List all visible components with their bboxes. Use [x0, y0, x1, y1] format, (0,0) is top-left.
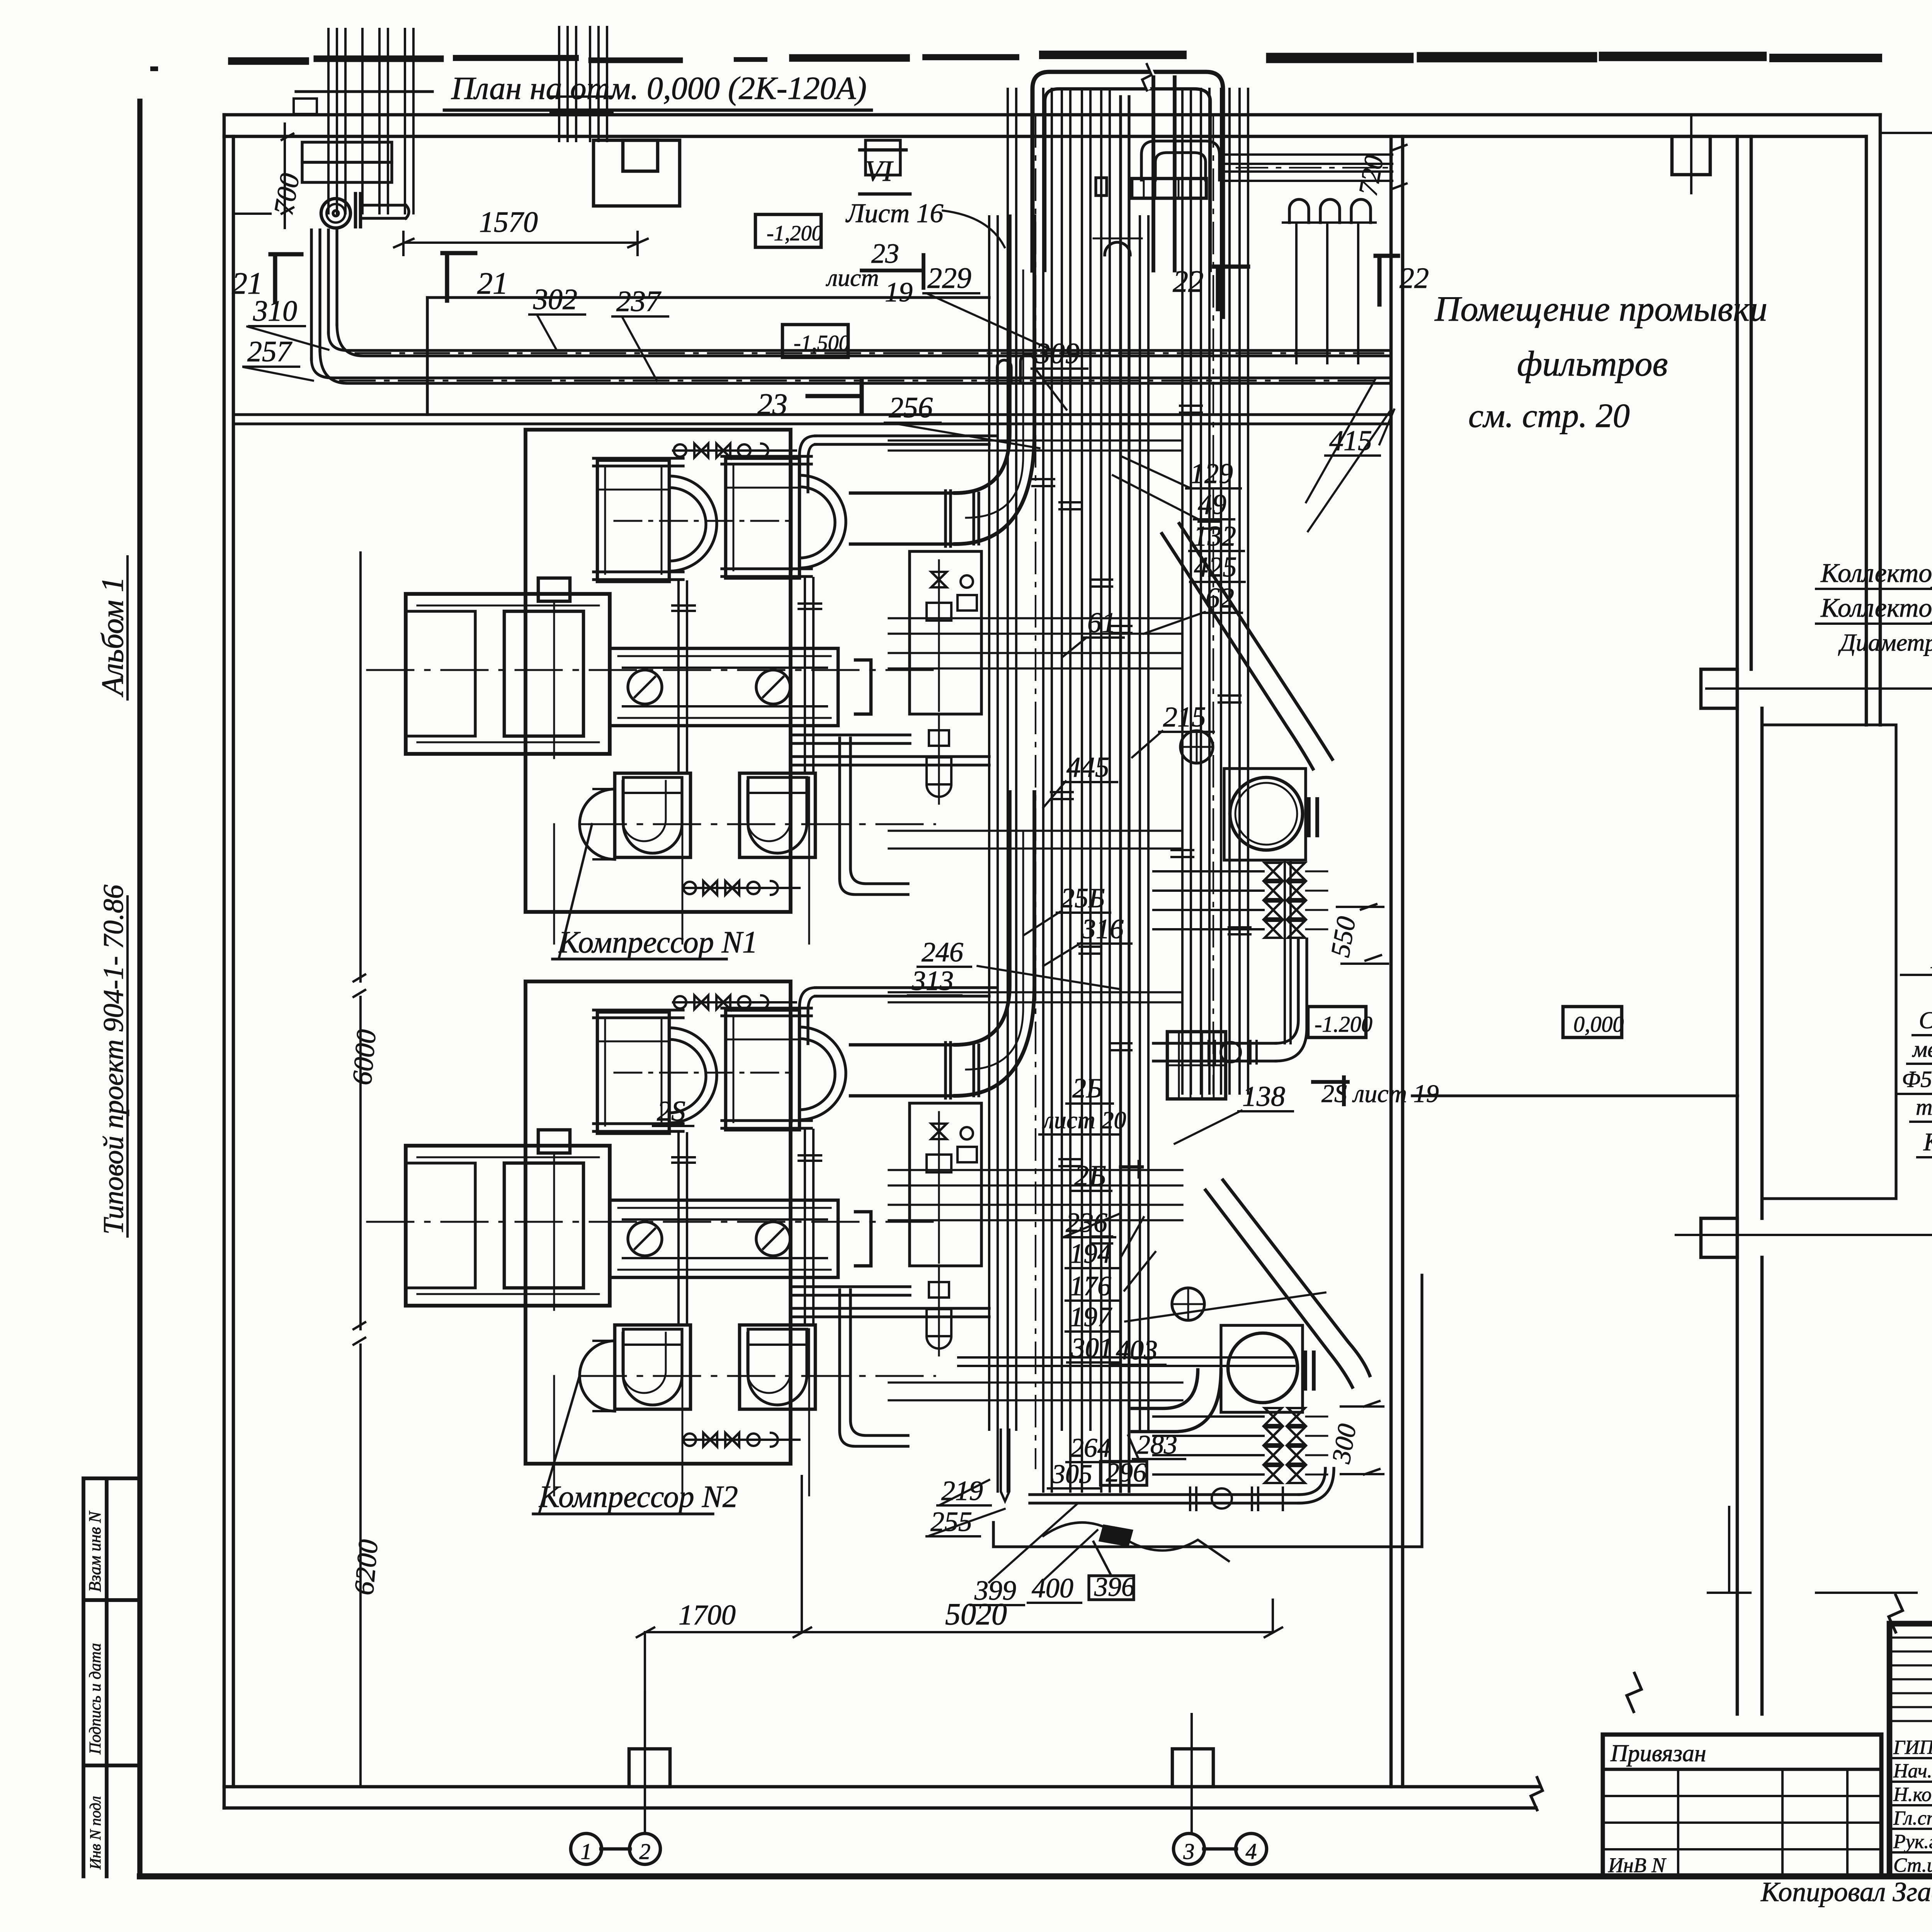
long pipe A to filter room [328, 325, 1391, 356]
svg-text:3: 3 [1183, 1839, 1195, 1864]
svg-text:256: 256 [889, 391, 933, 424]
building right wall upper [1866, 115, 1880, 725]
svg-text:Подпись и дата: Подпись и дата [87, 1643, 104, 1755]
svg-text:229: 229 [927, 262, 971, 294]
corridor flange ticks [1032, 479, 1054, 486]
instrument stand N2 [910, 1103, 981, 1355]
dim ext line near title block [1708, 1507, 1750, 1593]
dim 1570 [394, 232, 648, 255]
svg-text:313: 313 [912, 965, 954, 996]
svg-text:302: 302 [533, 283, 577, 316]
svg-text:2S: 2S [657, 1095, 685, 1127]
svg-text:425: 425 [1194, 551, 1237, 583]
right annex outline [1762, 725, 1896, 1199]
compressor N2 [367, 981, 935, 1495]
instrument stand N1 [910, 551, 981, 804]
section mark 21 mid [442, 253, 475, 301]
svg-text:1: 1 [581, 1839, 592, 1864]
bottom horizontal pipe runs [958, 1357, 1294, 1366]
svg-text:197: 197 [1070, 1301, 1112, 1332]
horizontal branches corridor N1 [889, 439, 1182, 441]
wall pier filter room top [1672, 136, 1710, 175]
intake elbow N1 [955, 216, 1034, 544]
svg-text:Н.контр: Н.контр [1893, 1784, 1932, 1806]
svg-text:296: 296 [1106, 1458, 1146, 1488]
svg-text:22: 22 [1400, 262, 1429, 294]
svg-text:Коллектор воды прямой: Коллектор воды прямой [1820, 593, 1932, 623]
svg-text:см. стр. 20: см. стр. 20 [1468, 397, 1630, 435]
intake pipe N1 [850, 493, 955, 544]
svg-text:точных баков продувок,Ф50: точных баков продувок,Ф50 [1916, 1094, 1932, 1120]
svg-text:19: 19 [885, 277, 913, 308]
svg-text:415: 415 [1329, 425, 1372, 457]
intake run N2 upper [815, 988, 997, 996]
svg-text:Коллектор дренажа, Ф40: Коллектор дренажа, Ф40 [1923, 1128, 1932, 1156]
sheet frame left border [137, 101, 142, 1876]
inclined pipe N2 [1206, 1180, 1370, 1387]
lower assembly base [993, 1275, 1422, 1547]
svg-text:Копировал Згавордей: Копировал Згавордей [1760, 1876, 1932, 1907]
hatched drain symbol [1099, 1524, 1133, 1547]
separator tank N1 [1224, 769, 1306, 860]
svg-text:Взам инв N: Взам инв N [85, 1510, 104, 1592]
discharge pipes N2 [791, 1287, 910, 1295]
dim 1700 / 5020 bottom [637, 1476, 1282, 1832]
svg-text:62: 62 [1206, 582, 1234, 614]
sheet frame bottom border [140, 1873, 1932, 1879]
svg-text:Ф50.Сброс воздуха от промежу-: Ф50.Сброс воздуха от промежу- [1902, 1066, 1932, 1092]
svg-text:445: 445 [1066, 752, 1109, 783]
svg-text:6200: 6200 [348, 1538, 384, 1596]
svg-text:21: 21 [477, 267, 508, 301]
signature table thin rows [1889, 1636, 1932, 1638]
section mark 21 left [270, 254, 301, 301]
svg-text:61: 61 [1087, 607, 1116, 639]
grid axis Б [1676, 1234, 1932, 1236]
svg-text:Рук.гр: Рук.гр [1893, 1831, 1932, 1853]
svg-text:301: 301 [1071, 1332, 1113, 1363]
svg-text:-1,200: -1,200 [767, 221, 823, 245]
filter room bottom line [1412, 1094, 1738, 1097]
plan top wall [224, 115, 1880, 136]
svg-text:VI: VI [865, 155, 894, 187]
upper-mid piping square [866, 140, 900, 175]
svg-text:Помещение промывки: Помещение промывки [1434, 289, 1767, 328]
long pipe B [311, 230, 320, 359]
riser pair to pipe A [328, 230, 337, 333]
svg-text:План на отм. 0,000 (2К-120А): План на отм. 0,000 (2К-120А) [451, 70, 867, 106]
valve manifold N1 [1265, 863, 1282, 880]
discharge pipes N1 [791, 735, 910, 743]
привязан table [1603, 1735, 1881, 1876]
svg-text:межуточных баков продувок,: межуточных баков продувок, [1912, 1036, 1932, 1062]
dim line 6000/6200 [359, 553, 362, 1785]
svg-text:2S лист 19: 2S лист 19 [1321, 1080, 1439, 1108]
svg-text:25Б: 25Б [1061, 883, 1105, 913]
elevation box -1.500 [782, 325, 848, 357]
left margin stamp boxes [83, 1478, 140, 1876]
svg-text:2Б: 2Б [1074, 1160, 1106, 1192]
svg-text:ГИП: ГИП [1893, 1736, 1932, 1759]
svg-text:283: 283 [1137, 1430, 1177, 1460]
elevation box -1.200 lower [1308, 1007, 1366, 1037]
svg-text:1700: 1700 [679, 1599, 736, 1631]
title block outer [1889, 1624, 1932, 1876]
svg-text:Типовой проект 904-1- 70.86: Типовой проект 904-1- 70.86 [98, 884, 129, 1235]
floor grate [1167, 1032, 1226, 1099]
plan bottom wall [224, 1787, 1539, 1808]
grid axis В [1706, 687, 1932, 690]
drain tip pipes [1001, 1430, 1009, 1501]
svg-text:Ст.инж: Ст.инж [1893, 1854, 1932, 1876]
svg-text:лист: лист [826, 264, 879, 291]
svg-text:Инв N подл: Инв N подл [87, 1796, 104, 1870]
svg-text:138: 138 [1242, 1081, 1285, 1112]
signature rows [1889, 1757, 1932, 1759]
svg-text:Диаметры: 159х3,0(для 9К-12: Диаметры: 159х3,0(для 9К-120А) [1838, 629, 1932, 656]
flange plate row [1132, 179, 1206, 198]
cap stubs near 256 [997, 354, 1034, 383]
manifold riser N1 [1285, 862, 1291, 1043]
grid axis 3 4 [1204, 1847, 1236, 1851]
svg-text:2: 2 [639, 1839, 651, 1864]
svg-text:Лист 16: Лист 16 [845, 199, 944, 228]
pipe run below manifold N1 [1153, 1043, 1276, 1061]
top edge tape marks [232, 57, 305, 65]
valve with handwheel [321, 199, 350, 228]
svg-text:1570: 1570 [479, 206, 538, 238]
separator tank N2 [1221, 1325, 1303, 1412]
svg-text:264: 264 [1070, 1433, 1111, 1463]
bottom wall columns [629, 1749, 670, 1787]
svg-text:Пусковые трубопро-: Пусковые трубопро- [1930, 946, 1932, 974]
upper room inner line [427, 296, 989, 299]
intake pipe N2 [850, 1045, 955, 1096]
building right wall lower [1737, 136, 1762, 1257]
pipe risers top-left [327, 29, 330, 213]
intake run N1 upper [815, 436, 997, 444]
corridor thick pipe pair [1121, 97, 1129, 1492]
svg-text:Компрессор N2: Компрессор N2 [539, 1480, 738, 1514]
svg-text:246: 246 [922, 937, 963, 968]
section mark 23 bottom [808, 381, 862, 413]
pipes to filter room pier [1223, 155, 1392, 181]
nested U pipe loops [1141, 141, 1219, 180]
riser pipes mid top [558, 27, 560, 141]
svg-text:132: 132 [1193, 520, 1236, 552]
svg-text:Привязан: Привязан [1610, 1740, 1706, 1767]
svg-text:237: 237 [616, 285, 662, 318]
svg-text:22: 22 [1173, 265, 1204, 299]
horizontal branches corridor N2 [889, 991, 1182, 993]
svg-text:Компрессор N1: Компрессор N1 [558, 925, 758, 959]
break on loop top [1145, 66, 1153, 88]
pipe undercross [1105, 242, 1130, 255]
svg-text:305: 305 [1051, 1459, 1092, 1489]
elevation box -1.200 top [755, 214, 821, 247]
svg-text:215: 215 [1163, 701, 1206, 733]
svg-text:4: 4 [1246, 1839, 1257, 1864]
plan left wall [224, 115, 233, 1808]
svg-text:Альбом 1: Альбом 1 [96, 577, 130, 697]
svg-text:403: 403 [1116, 1335, 1158, 1366]
svg-text:396: 396 [1094, 1572, 1135, 1602]
svg-text:176: 176 [1070, 1270, 1111, 1301]
corridor top risers [1153, 77, 1175, 270]
svg-text:-1.200: -1.200 [1315, 1012, 1372, 1037]
upper room bottom wall [233, 415, 1391, 424]
section mark 22 right [1376, 256, 1398, 304]
svg-text:257: 257 [247, 335, 293, 368]
filter room left wall [1391, 136, 1403, 1787]
svg-text:23: 23 [757, 387, 787, 421]
svg-text:Слив конденсата от про-: Слив конденсата от про- [1919, 1007, 1932, 1034]
svg-text:0,000: 0,000 [1573, 1012, 1624, 1037]
svg-text:49: 49 [1198, 489, 1226, 520]
svg-text:2Б: 2Б [1072, 1073, 1102, 1104]
inclined pipe N1 [1162, 524, 1332, 769]
pipe corridor vertical bundle [989, 89, 1110, 1492]
svg-text:400: 400 [1032, 1573, 1073, 1604]
section mark 22 left [1214, 267, 1248, 309]
corridor east bundle [1182, 89, 1248, 1094]
svg-text:316: 316 [1082, 913, 1124, 944]
grid axis Г [1880, 132, 1932, 134]
svg-text:194: 194 [1070, 1238, 1111, 1269]
flange ladder top-left [302, 142, 392, 162]
svg-text:Нач.отд: Нач.отд [1893, 1760, 1932, 1782]
compressor N1 [367, 430, 935, 944]
svg-text:Гл.спец: Гл.спец [1893, 1807, 1932, 1829]
big pipe loop top centre [1032, 72, 1223, 317]
valve manifold N2 [1265, 1408, 1282, 1425]
pump circle N2 [1172, 1288, 1204, 1320]
svg-text:309: 309 [1035, 337, 1080, 370]
svg-text:310: 310 [253, 295, 297, 327]
svg-text:лист 20: лист 20 [1042, 1106, 1126, 1134]
dim 700 vertical top-left [284, 124, 286, 228]
elbow pipes lower mid [1132, 1370, 1221, 1432]
grid axis 1 2 [601, 1847, 630, 1851]
riser pipes with caps x3270 [1289, 199, 1371, 223]
svg-text:129: 129 [1190, 458, 1233, 490]
corridor dash centrelines [1036, 116, 1213, 1468]
svg-text:Коллектор воды обратной: Коллектор воды обратной [1820, 558, 1932, 588]
svg-text:6000: 6000 [346, 1028, 382, 1086]
intake elbow N2 [955, 792, 1034, 1096]
top strip foundation block [594, 140, 680, 206]
wall piers right [1701, 669, 1737, 708]
svg-text:ИнВ N: ИнВ N [1608, 1854, 1667, 1877]
svg-text:фильтров: фильтров [1517, 344, 1668, 383]
svg-text:399: 399 [974, 1575, 1016, 1606]
elevation box 0.000 lower [1563, 1007, 1622, 1037]
pump circle N1 [1180, 731, 1213, 763]
